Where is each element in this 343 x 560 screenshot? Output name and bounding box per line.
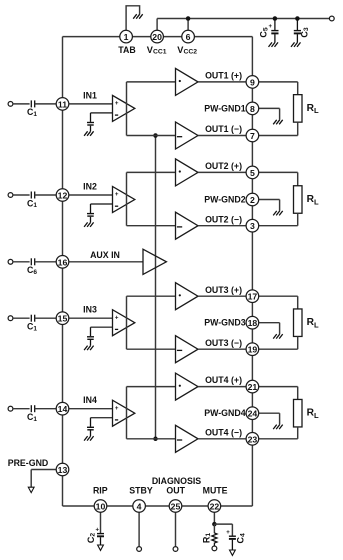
svg-text:PRE-GND: PRE-GND (8, 458, 49, 468)
svg-text:17: 17 (248, 292, 258, 302)
svg-text:11: 11 (58, 99, 67, 109)
svg-text:OUT4 (−): OUT4 (−) (205, 427, 242, 437)
svg-text:OUT2 (−): OUT2 (−) (205, 214, 242, 224)
svg-text:+: + (115, 314, 119, 321)
svg-text:OUT4 (+): OUT4 (+) (205, 375, 242, 385)
svg-text:OUT1 (+): OUT1 (+) (205, 71, 242, 81)
svg-text:19: 19 (248, 345, 258, 355)
svg-text:1: 1 (124, 32, 129, 42)
svg-text:9: 9 (250, 77, 255, 87)
svg-text:PW-GND2: PW-GND2 (204, 195, 245, 205)
svg-text:12: 12 (58, 191, 68, 201)
svg-text:RIP: RIP (93, 486, 108, 496)
svg-text:IN4: IN4 (83, 395, 97, 405)
svg-text:16: 16 (58, 257, 68, 267)
svg-text:6: 6 (186, 32, 191, 42)
svg-text:25: 25 (171, 502, 181, 512)
svg-text:+: + (115, 191, 119, 198)
svg-text:15: 15 (58, 314, 68, 324)
svg-text:PW-GND3: PW-GND3 (204, 318, 245, 328)
svg-text:+: + (226, 530, 230, 536)
svg-text:18: 18 (248, 318, 258, 328)
svg-text:3: 3 (250, 221, 255, 231)
svg-text:22: 22 (210, 502, 220, 512)
svg-text:14: 14 (58, 404, 68, 414)
svg-text:IN2: IN2 (83, 182, 97, 192)
svg-text:PW-GND1: PW-GND1 (204, 103, 245, 113)
svg-text:IN1: IN1 (83, 90, 97, 100)
svg-text:TAB: TAB (118, 45, 135, 55)
svg-text:7: 7 (250, 131, 255, 141)
svg-text:+: + (115, 405, 119, 412)
svg-text:OUT3 (+): OUT3 (+) (205, 285, 242, 295)
svg-text:+: + (269, 24, 273, 30)
svg-text:5: 5 (250, 168, 255, 178)
svg-text:+: + (96, 527, 100, 533)
svg-text:AUX IN: AUX IN (90, 250, 120, 260)
svg-text:+: + (115, 100, 119, 107)
svg-text:4: 4 (137, 502, 142, 512)
svg-text:8: 8 (250, 104, 255, 114)
svg-text:DIAGNOSIS: DIAGNOSIS (152, 476, 201, 486)
svg-text:10: 10 (96, 502, 106, 512)
svg-text:STBY: STBY (129, 486, 153, 496)
svg-text:OUT3 (−): OUT3 (−) (205, 338, 242, 348)
svg-text:OUT1 (−): OUT1 (−) (205, 124, 242, 134)
svg-text:IN3: IN3 (83, 305, 97, 315)
svg-text:OUT2 (+): OUT2 (+) (205, 161, 242, 171)
svg-text:2: 2 (250, 195, 255, 205)
svg-text:MUTE: MUTE (203, 486, 228, 496)
svg-text:13: 13 (58, 465, 68, 475)
svg-text:20: 20 (152, 32, 162, 42)
svg-text:OUT: OUT (166, 486, 185, 496)
svg-text:21: 21 (248, 382, 258, 392)
svg-text:24: 24 (248, 409, 258, 419)
svg-text:23: 23 (248, 434, 258, 444)
svg-text:PW-GND4: PW-GND4 (204, 408, 245, 418)
